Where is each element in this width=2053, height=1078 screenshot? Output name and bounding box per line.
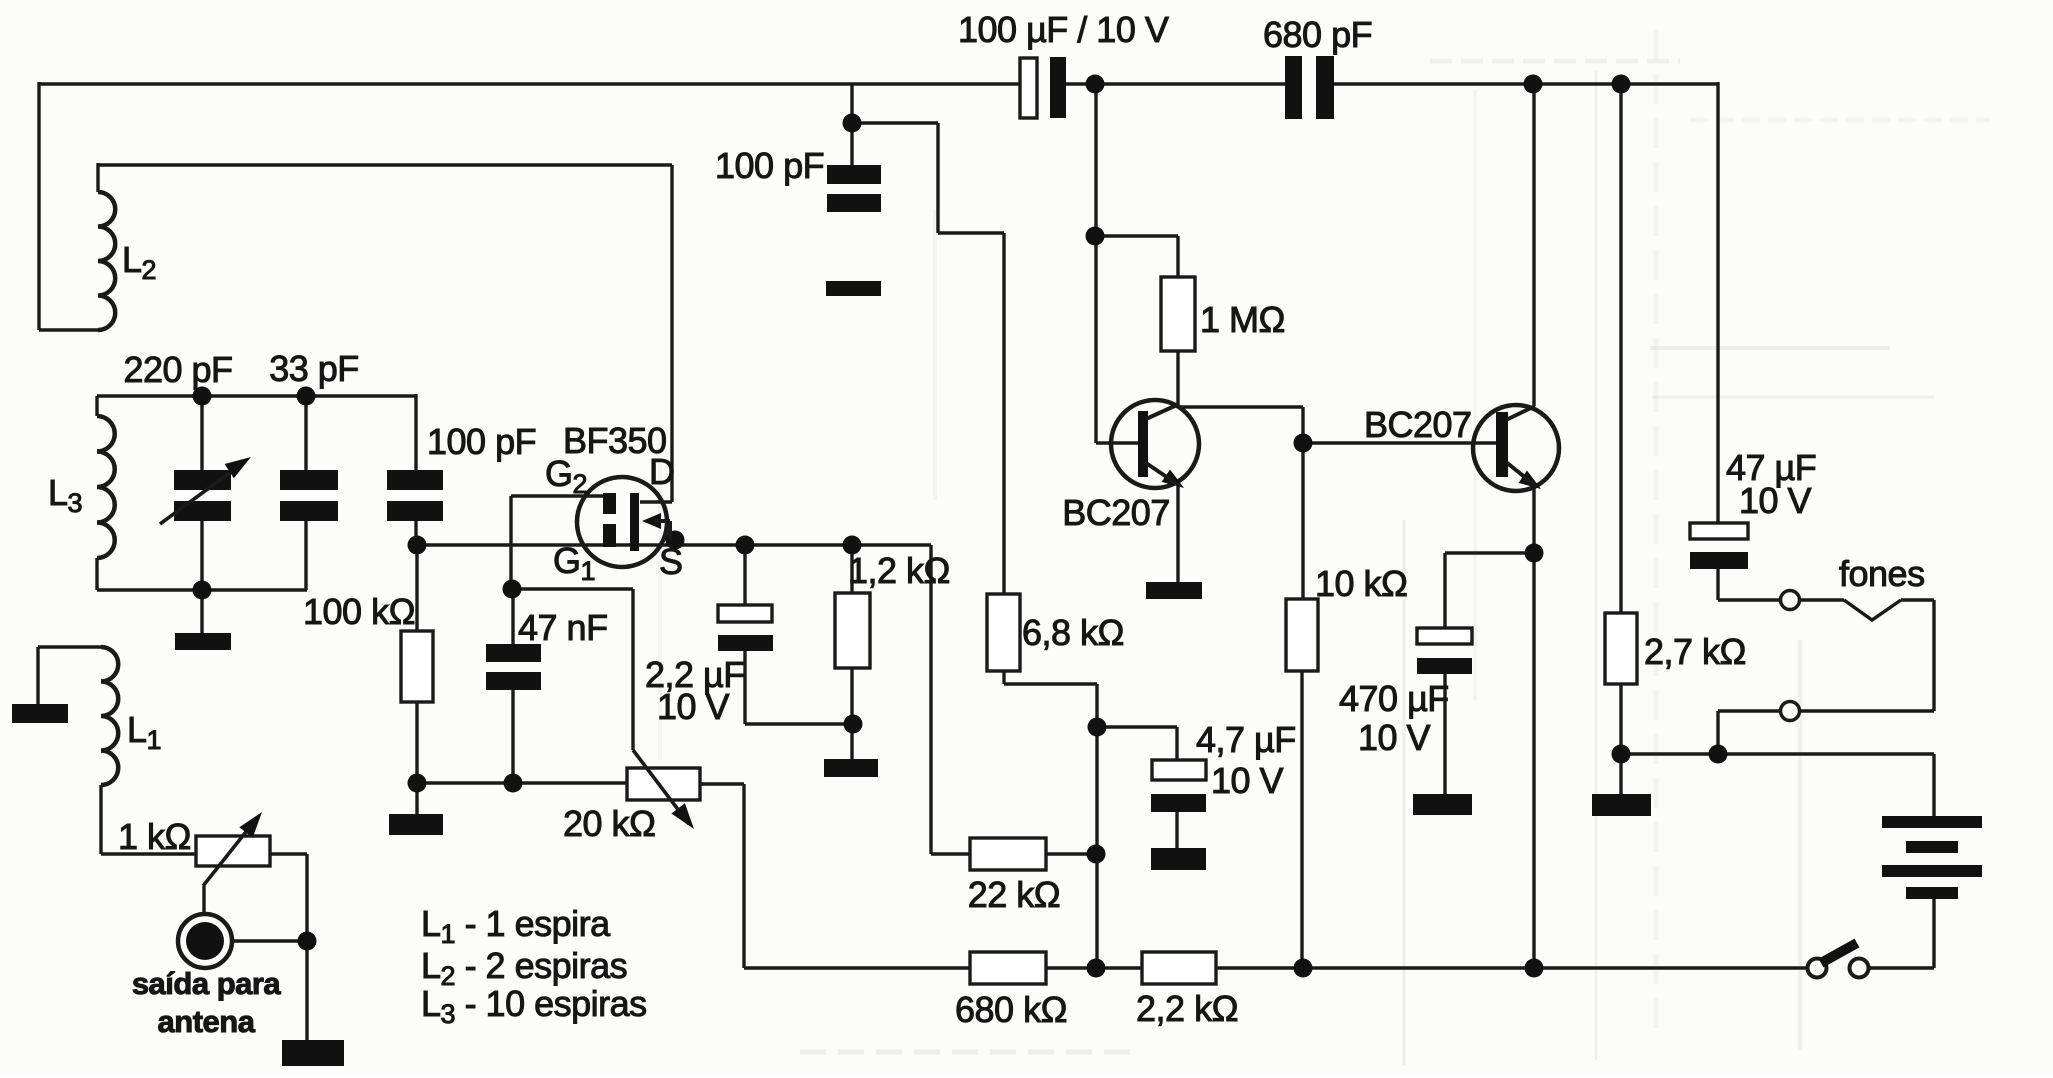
- svg-text:10 V: 10 V: [1358, 717, 1431, 758]
- svg-text:saída para: saída para: [132, 966, 282, 1001]
- svg-text:10 V: 10 V: [657, 686, 730, 727]
- svg-text:BC207: BC207: [1364, 404, 1472, 445]
- svg-text:47 nF: 47 nF: [518, 607, 608, 648]
- svg-text:470 µF: 470 µF: [1339, 678, 1449, 719]
- svg-text:680 pF: 680 pF: [1263, 14, 1372, 55]
- svg-text:L3 - 10 espiras: L3 - 10 espiras: [421, 983, 647, 1029]
- svg-text:2,2 kΩ: 2,2 kΩ: [1136, 988, 1238, 1029]
- svg-text:10 V: 10 V: [1739, 480, 1812, 521]
- svg-text:100 kΩ: 100 kΩ: [303, 591, 415, 632]
- svg-text:680 kΩ: 680 kΩ: [955, 989, 1067, 1030]
- svg-text:220 pF: 220 pF: [123, 349, 232, 390]
- svg-text:1 kΩ: 1 kΩ: [118, 816, 191, 857]
- svg-text:4,7 µF: 4,7 µF: [1196, 719, 1296, 760]
- svg-text:BC207: BC207: [1062, 492, 1170, 533]
- svg-text:100 pF: 100 pF: [427, 421, 536, 462]
- svg-text:33 pF: 33 pF: [269, 348, 359, 389]
- svg-text:2,7 kΩ: 2,7 kΩ: [1644, 631, 1746, 672]
- svg-text:10 kΩ: 10 kΩ: [1315, 563, 1407, 604]
- svg-text:100 pF: 100 pF: [715, 145, 824, 186]
- svg-text:1 MΩ: 1 MΩ: [1200, 299, 1285, 340]
- svg-text:antena: antena: [158, 1004, 256, 1039]
- svg-text:6,8 kΩ: 6,8 kΩ: [1022, 612, 1124, 653]
- svg-text:D: D: [649, 451, 675, 492]
- svg-text:10 V: 10 V: [1211, 760, 1284, 801]
- svg-text:S: S: [659, 541, 683, 582]
- svg-text:100 µF / 10 V: 100 µF / 10 V: [958, 9, 1169, 50]
- svg-text:1,2 kΩ: 1,2 kΩ: [848, 550, 950, 591]
- svg-text:20 kΩ: 20 kΩ: [563, 803, 655, 844]
- svg-text:22 kΩ: 22 kΩ: [968, 874, 1060, 915]
- svg-text:fones: fones: [1839, 553, 1925, 594]
